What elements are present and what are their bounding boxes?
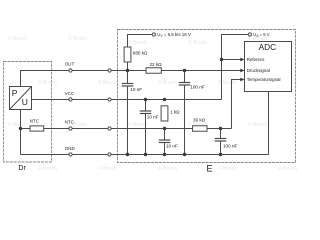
junction GND 100nF temperature — [219, 153, 222, 156]
capacitor 10 nF (VCC filter) — [140, 100, 159, 155]
svg-text:NTC: NTC — [30, 118, 40, 123]
pin GND sensor-side — [69, 153, 72, 156]
svg-text:10 nF: 10 nF — [147, 115, 159, 120]
wire OUT from transducer top — [21, 71, 69, 87]
arrow Referenz — [240, 58, 244, 62]
svg-text:UV = 5,5 bis 16 V: UV = 5,5 bis 16 V — [157, 32, 191, 38]
wire 680k to OUT node — [127, 62, 129, 71]
svg-text:OUT: OUT — [65, 62, 75, 67]
svg-text:Temperatursignal: Temperatursignal — [247, 77, 281, 82]
terminal U_A — [248, 33, 251, 36]
junction VCC/10nF — [144, 98, 147, 101]
resistor 39 kOhm — [193, 117, 207, 131]
svg-text:U: U — [22, 97, 28, 107]
svg-text:Drucksignal: Drucksignal — [247, 68, 270, 73]
svg-text:GND: GND — [65, 146, 76, 151]
ECU box E (dashed) — [118, 30, 296, 163]
wire U_V terminal — [128, 35, 153, 48]
wire NTC inside ECU — [111, 128, 193, 130]
ADC U1 — [245, 42, 292, 92]
svg-text:Dr: Dr — [18, 165, 26, 172]
svg-text:© Bosch: © Bosch — [158, 79, 177, 86]
sensor internal GND drop — [20, 110, 22, 155]
sensor box Dr (dashed) — [4, 62, 52, 163]
svg-text:Referenz: Referenz — [247, 57, 265, 62]
wire 5V riser to U_A terminal — [222, 35, 249, 100]
wire VCC harness — [72, 99, 108, 101]
wire NTC harness — [72, 128, 108, 130]
svg-text:NTC: NTC — [65, 120, 75, 125]
junction OUT/680k/10nF — [126, 69, 129, 72]
pin OUT sensor-side — [69, 69, 72, 72]
pin NTC sensor-side — [69, 127, 72, 130]
wire GND in sensor — [21, 154, 69, 156]
svg-text:© Bosch: © Bosch — [98, 79, 117, 86]
arrow Drucksignal — [240, 69, 244, 73]
svg-text:© Bosch: © Bosch — [8, 35, 27, 42]
svg-text:© Bosch: © Bosch — [128, 121, 147, 128]
svg-text:22 kΩ: 22 kΩ — [150, 62, 163, 67]
svg-text:© Bosch: © Bosch — [188, 39, 207, 46]
wire GND rail in ECU — [111, 154, 268, 156]
svg-text:© Bosch: © Bosch — [248, 121, 267, 128]
junction Referenz tap — [220, 58, 223, 61]
junction GND 10nF NTC — [163, 153, 166, 156]
junction GND 10nF VCC — [144, 153, 147, 156]
resistor 680 kOhm — [124, 47, 148, 62]
watermarks (decorative) — [8, 35, 297, 172]
svg-text:ADC: ADC — [259, 42, 277, 52]
svg-text:© Bosch: © Bosch — [8, 121, 27, 128]
svg-text:© Bosch: © Bosch — [278, 165, 297, 172]
pin VCC ECU-side — [108, 98, 111, 101]
wire ADC ground drop — [268, 92, 270, 155]
pin GND ECU-side — [108, 153, 111, 156]
svg-text:10 nF: 10 nF — [130, 87, 142, 92]
terminal U_V — [152, 33, 155, 36]
svg-text:1 kΩ: 1 kΩ — [170, 109, 180, 114]
svg-text:VCC: VCC — [65, 91, 75, 96]
resistor NTC (sensor internal) — [30, 118, 44, 131]
wire after 39k to temperature node — [207, 128, 232, 130]
capacitor 100 nF (temperature filter) — [215, 129, 238, 155]
capacitor 10 nF (NTC node filter) — [159, 129, 178, 155]
capacitor 100 nF (Drucksignal filter) — [179, 71, 205, 155]
junction GND 100nF Drucksignal — [183, 153, 186, 156]
junction NTC/1k/10nF — [163, 127, 166, 130]
wire GND harness — [72, 154, 108, 156]
transducer P/U — [10, 87, 32, 110]
svg-text:P: P — [12, 88, 18, 98]
svg-text:© Bosch: © Bosch — [38, 165, 57, 172]
arrow Temperatursignal — [240, 78, 244, 82]
capacitor 10 nF (OUT filter) — [122, 71, 143, 155]
junction VCC/1k — [163, 98, 166, 101]
pin OUT ECU-side — [108, 69, 111, 72]
svg-text:© Bosch: © Bosch — [38, 79, 57, 86]
svg-text:© Bosch: © Bosch — [128, 39, 147, 46]
svg-text:10 nF: 10 nF — [166, 144, 178, 149]
wire NTC sensor to pin — [44, 128, 69, 130]
wire Drucksignal — [161, 70, 243, 72]
resistor 1 kOhm — [161, 106, 180, 121]
pin VCC sensor-side — [69, 98, 72, 101]
junction temperature node — [219, 127, 222, 130]
svg-text:© Bosch: © Bosch — [158, 165, 177, 172]
junction Drucksignal/100nF — [183, 69, 186, 72]
junction NTC/GND sensor — [19, 127, 22, 130]
svg-text:© Bosch: © Bosch — [218, 165, 237, 172]
svg-text:39 kΩ: 39 kΩ — [193, 117, 206, 122]
pin NTC ECU-side — [108, 127, 111, 130]
svg-text:© Bosch: © Bosch — [98, 165, 117, 172]
wire OUT inside ECU — [111, 70, 146, 72]
resistor 22 kOhm — [146, 62, 162, 73]
svg-text:100 nF: 100 nF — [190, 84, 204, 89]
wire OUT harness — [72, 70, 108, 72]
svg-text:680 kΩ: 680 kΩ — [133, 51, 148, 56]
wire VCC from transducer — [32, 99, 69, 101]
svg-text:© Bosch: © Bosch — [218, 79, 237, 86]
wire NTC in sensor — [21, 128, 31, 130]
svg-text:100 nF: 100 nF — [223, 144, 237, 149]
wire Referenz — [222, 59, 244, 61]
wire VCC inside ECU — [111, 99, 221, 101]
svg-text:E: E — [207, 163, 213, 173]
wire Temperatursignal — [232, 80, 244, 129]
junction GND 10nF OUT — [126, 153, 129, 156]
svg-text:© Bosch: © Bosch — [68, 35, 87, 42]
